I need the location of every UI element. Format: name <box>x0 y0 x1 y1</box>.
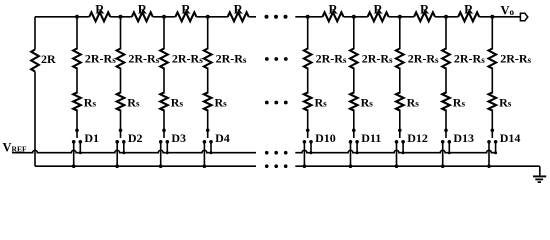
switch D14 left contact (to ground rail) <box>487 140 491 168</box>
switch D4 right contact (to VREF rail) <box>209 140 213 154</box>
resistor 2R-Rs (branch D10) <box>304 49 312 69</box>
resistor 2R-Rs (branch D4) <box>204 49 212 69</box>
node D1 top junction on output bus <box>75 15 79 19</box>
ellipsis dots: 2R-Rs row continuation <box>265 57 288 61</box>
resistor 2R-Rs (branch D12) <box>396 49 404 69</box>
svg-text:2R-Rs: 2R-Rs <box>316 52 347 66</box>
net VREF rail, right segment <box>295 150 495 152</box>
switch D2 pole terminal dot <box>119 129 123 133</box>
wire: top output bus, right segments to Vo terminal <box>295 16 520 18</box>
wire: left vertical branch (2R termination leg) <box>34 17 36 50</box>
resistor R (top ladder, section 4) <box>228 12 249 21</box>
switch D12 right contact (to VREF rail) <box>401 140 405 154</box>
switch D11 right contact (to VREF rail) <box>355 140 359 154</box>
svg-text:2R-Rs: 2R-Rs <box>85 52 116 66</box>
ground <box>533 166 546 182</box>
wire: branch D11 between 2R-Rs and Rs <box>353 68 355 94</box>
switch D12 left contact (to ground rail) <box>395 140 399 168</box>
svg-text:2R-Rs: 2R-Rs <box>172 52 203 66</box>
svg-text:D4: D4 <box>215 131 230 145</box>
net VREF rail, left segment (hops over crossing legs) <box>12 150 256 152</box>
switch D3 pole terminal dot <box>162 129 166 133</box>
node D2 top junction on output bus <box>119 15 123 19</box>
wire: branch D4 between 2R-Rs and Rs <box>207 68 209 94</box>
svg-text:R: R <box>464 2 474 16</box>
svg-text:D2: D2 <box>128 131 143 145</box>
wire: top output bus, left segments between R resistors <box>35 16 256 18</box>
svg-text:2R-Rs: 2R-Rs <box>408 52 439 66</box>
resistor R (top ladder, section 8) <box>458 12 479 21</box>
wire: branch D3 between 2R-Rs and Rs <box>163 68 165 94</box>
resistor R (top ladder, section 3) <box>175 12 196 21</box>
resistor Rs (branch D1) <box>73 93 81 111</box>
switch D10 pole wire from Rs <box>307 110 309 139</box>
ellipsis dots: ground rail continuation <box>265 164 288 168</box>
svg-text:R: R <box>181 2 191 16</box>
svg-text:R: R <box>420 2 430 16</box>
svg-text:D10: D10 <box>315 131 336 145</box>
resistor 2R-Rs (branch D13) <box>442 49 450 69</box>
switch D13 pole wire from Rs <box>445 110 447 139</box>
wire: branch D13 between 2R-Rs and Rs <box>445 68 447 94</box>
switch D13 left contact (to ground rail) <box>441 140 445 168</box>
wire: branch D14 from bus down to 2R-Rs <box>491 17 493 50</box>
switch D4 pole terminal dot <box>206 129 210 133</box>
svg-text:D11: D11 <box>361 131 381 145</box>
switch D1 left contact (to ground rail) <box>72 140 76 168</box>
wire: branch D4 from bus down to 2R-Rs <box>207 17 209 50</box>
wire: branch D1 between 2R-Rs and Rs <box>76 68 78 94</box>
wire: branch D2 from bus down to 2R-Rs <box>120 17 122 50</box>
resistor 2R-Rs (branch D1) <box>73 49 81 69</box>
svg-text:2R-Rs: 2R-Rs <box>500 52 531 66</box>
net ground rail, left segment <box>35 165 256 167</box>
switch D3 left contact (to ground rail) <box>159 140 163 168</box>
switch D11 pole wire from Rs <box>353 110 355 139</box>
resistor Rs (branch D4) <box>204 93 212 111</box>
switch D10 pole terminal dot <box>306 129 310 133</box>
resistor Rs (branch D2) <box>117 93 125 111</box>
wire: branch D3 from bus down to 2R-Rs <box>163 17 165 50</box>
svg-text:2R-Rs: 2R-Rs <box>216 52 247 66</box>
switch D1 pole terminal dot <box>75 129 79 133</box>
resistor R (top ladder, section 6) <box>368 12 389 21</box>
svg-text:D13: D13 <box>453 131 474 145</box>
svg-text:2R-Rs: 2R-Rs <box>362 52 393 66</box>
switch D1 pole wire from Rs <box>76 110 78 139</box>
switch D12 pole terminal dot <box>398 129 402 133</box>
node D10 top junction on output bus <box>306 15 310 19</box>
node D4 top junction on output bus <box>206 15 210 19</box>
svg-text:D3: D3 <box>171 131 186 145</box>
resistor 2R-Rs (branch D11) <box>350 49 358 69</box>
svg-text:R: R <box>95 2 105 16</box>
switch D11 pole terminal dot <box>352 129 356 133</box>
resistor R (top ladder, section 2) <box>132 12 153 21</box>
switch D13 pole terminal dot <box>444 129 448 133</box>
resistor Rs (branch D11) <box>350 93 358 111</box>
switch D12 pole wire from Rs <box>399 110 401 139</box>
resistor 2R <box>31 50 39 72</box>
switch D10 left contact (to ground rail) <box>303 140 307 168</box>
resistor R (top ladder, section 5) <box>323 12 344 21</box>
ellipsis dots: top bus continuation <box>265 15 288 19</box>
switch D2 pole wire from Rs <box>120 110 122 139</box>
ellipsis dots: VREF rail continuation <box>265 151 288 155</box>
svg-text:2R-Rs: 2R-Rs <box>454 52 485 66</box>
wire: branch D14 between 2R-Rs and Rs <box>491 68 493 94</box>
net ground rail, right segment <box>295 165 540 167</box>
wire: branch D10 from bus down to 2R-Rs <box>307 17 309 50</box>
switch D3 right contact (to VREF rail) <box>166 140 170 154</box>
switch D14 pole wire from Rs <box>491 110 493 139</box>
wire: branch D13 from bus down to 2R-Rs <box>445 17 447 50</box>
svg-text:R: R <box>138 2 148 16</box>
node D13 top junction on output bus <box>444 15 448 19</box>
svg-text:R: R <box>328 2 338 16</box>
node D11 top junction on output bus <box>352 15 356 19</box>
svg-text:D1: D1 <box>84 131 99 145</box>
node D14 top junction on output bus <box>490 15 494 19</box>
resistor Rs (branch D3) <box>160 93 168 111</box>
switch D11 left contact (to ground rail) <box>349 140 353 168</box>
switch D2 right contact (to VREF rail) <box>122 140 126 154</box>
resistor 2R-Rs (branch D2) <box>117 49 125 69</box>
wire: branch D1 from bus down to 2R-Rs <box>76 17 78 50</box>
switch D3 pole wire from Rs <box>163 110 165 139</box>
svg-text:D12: D12 <box>407 131 428 145</box>
switch D4 left contact (to ground rail) <box>203 140 207 168</box>
resistor Rs (branch D14) <box>489 93 497 111</box>
resistor Rs (branch D12) <box>396 93 404 111</box>
resistor R (top ladder, section 1) <box>89 12 110 21</box>
svg-text:R: R <box>374 2 384 16</box>
svg-text:2R-Rs: 2R-Rs <box>128 52 159 66</box>
switch D14 pole terminal dot <box>491 129 495 133</box>
svg-text:D14: D14 <box>500 131 521 145</box>
switch D1 right contact (to VREF rail) <box>79 140 83 154</box>
wire: branch D12 from bus down to 2R-Rs <box>399 17 401 50</box>
wire: branch D12 between 2R-Rs and Rs <box>399 68 401 94</box>
resistor R (top ladder, section 7) <box>414 12 435 21</box>
switch D4 pole wire from Rs <box>207 110 209 139</box>
wire: branch D10 between 2R-Rs and Rs <box>307 68 309 94</box>
switch D2 left contact (to ground rail) <box>115 140 119 168</box>
switch D13 right contact (to VREF rail) <box>448 140 452 154</box>
svg-text:R: R <box>234 2 244 16</box>
switch D10 right contact (to VREF rail) <box>309 140 313 154</box>
wire: branch D2 between 2R-Rs and Rs <box>120 68 122 94</box>
resistor Rs (branch D13) <box>442 93 450 111</box>
node D3 top junction on output bus <box>162 15 166 19</box>
switch D14 right contact (to VREF rail) <box>494 140 498 154</box>
ellipsis dots: Rs row continuation <box>265 101 288 105</box>
svg-text:2R: 2R <box>41 52 56 66</box>
resistor 2R-Rs (branch D14) <box>489 49 497 69</box>
wire: branch D11 from bus down to 2R-Rs <box>353 17 355 50</box>
node D12 top junction on output bus <box>398 15 402 19</box>
output terminal Vo (open arrow) <box>520 13 527 20</box>
resistor 2R-Rs (branch D3) <box>160 49 168 69</box>
resistor Rs (branch D10) <box>304 93 312 111</box>
wire: left vertical leg from 2R down to ground rail <box>34 72 36 167</box>
